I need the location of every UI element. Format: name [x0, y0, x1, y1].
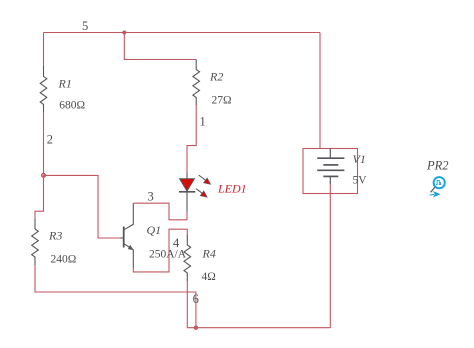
svg-text:Q1: Q1 — [147, 223, 162, 237]
LED arrow 1 — [199, 175, 208, 182]
svg-text:5V: 5V — [353, 175, 368, 187]
wire LED cathode to Q1 collector, node 3 — [133, 203, 187, 220]
wire Q1 emitter to R4, node 4 — [133, 229, 187, 272]
svg-text:PR2: PR2 — [426, 159, 449, 173]
battery V1 plate short 2 — [323, 175, 338, 177]
wire R4 bottom rail — [187, 281, 330, 328]
LED arrow 2 — [196, 189, 203, 195]
resistor R2 — [193, 60, 200, 106]
wire top rail node 5 — [44, 32, 321, 34]
junction dot top — [122, 31, 126, 35]
junction dot bottom — [194, 326, 198, 330]
battery V1 bottom lead — [329, 176, 331, 184]
svg-text:R4: R4 — [202, 246, 216, 260]
battery V1 box — [303, 149, 358, 194]
svg-text:V1: V1 — [353, 152, 366, 166]
probe PR2 arrow — [430, 193, 435, 196]
svg-text:5: 5 — [82, 19, 88, 33]
svg-text:27Ω: 27Ω — [212, 95, 232, 107]
wire battery bottom — [329, 184, 331, 328]
battery V1 plate short 1 — [323, 164, 338, 166]
junction ring node 2 — [42, 174, 46, 178]
wire R3 bottom to bottom rail — [35, 265, 196, 328]
battery V1 plate long 2 — [317, 169, 344, 171]
svg-text:R1: R1 — [58, 77, 72, 91]
transistor Q1 bar — [123, 227, 125, 248]
resistor R4 — [184, 235, 191, 281]
svg-text:R3: R3 — [48, 229, 62, 243]
LED LED1 triangle — [180, 179, 195, 191]
battery V1 plate long 1 — [317, 157, 344, 159]
wire R2 bottom to LED — [187, 105, 196, 173]
LED LED1 lead — [186, 172, 188, 211]
transistor Q1 collector — [124, 203, 134, 230]
transistor Q1 emitter — [124, 244, 134, 268]
svg-text:1: 1 — [200, 115, 206, 129]
wire from junction down to R2 — [124, 33, 196, 60]
probe PR2 waveform — [436, 180, 441, 184]
svg-text:680Ω: 680Ω — [59, 100, 85, 112]
probe PR2 magnifier circle — [434, 177, 445, 188]
LED LED1 cathode bar — [179, 191, 195, 193]
wire node2 down to R3 — [35, 175, 44, 220]
svg-text:2: 2 — [47, 133, 53, 147]
svg-text:R2: R2 — [209, 70, 223, 84]
transistor Q1 emitter arrow — [128, 245, 134, 250]
svg-text:240Ω: 240Ω — [51, 254, 77, 266]
svg-text:250A/A: 250A/A — [149, 249, 187, 261]
svg-text:3: 3 — [148, 190, 154, 204]
wire node2 to Q1 base — [44, 175, 121, 238]
transistor Q1 base lead — [121, 237, 124, 239]
wire R1 bottom to node 2 junction — [43, 112, 45, 175]
battery V1 top lead — [329, 149, 331, 159]
svg-text:4: 4 — [173, 236, 180, 250]
resistor R1 — [40, 66, 47, 112]
svg-text:LED1: LED1 — [217, 181, 247, 195]
probe PR2 handle — [431, 187, 435, 192]
resistor R3 — [32, 219, 39, 265]
wire left rail top (to R1) — [43, 33, 45, 67]
svg-text:6: 6 — [193, 292, 199, 306]
wire right rail — [319, 33, 321, 149]
svg-text:4Ω: 4Ω — [202, 271, 216, 283]
